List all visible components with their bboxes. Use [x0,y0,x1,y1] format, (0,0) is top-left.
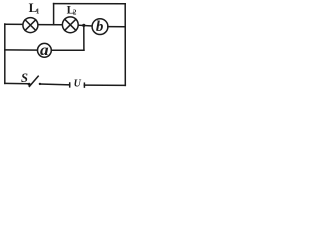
svg-text:1: 1 [36,8,40,16]
wire b to right vertical [108,26,125,28]
wire riser node X [53,4,55,25]
wire L1 to L2 through node X [38,24,62,26]
wire bottom left to switch [5,82,28,84]
wire L2 to meter b [79,24,92,27]
wire source to bottom right [84,84,125,86]
wire a-branch left [5,49,38,51]
source terminal right [83,83,85,87]
source terminal left [69,83,71,87]
wire right vertical [124,4,126,86]
switch S blade [29,76,38,86]
switch contact dot left [28,83,31,86]
wire top-left horizontal to L1 [5,23,23,25]
switch contact dot right [39,83,41,85]
lamp L2 [62,17,78,33]
lamp L1 [23,18,38,33]
svg-text:a: a [40,42,49,59]
node Y junction dot [82,24,85,27]
svg-text:U: U [74,79,82,90]
svg-text:2: 2 [73,9,77,17]
wire top bypass [54,3,126,5]
wire left vertical [4,24,6,83]
meter a [38,43,52,57]
svg-text:S: S [21,71,28,85]
meter b [92,19,108,35]
svg-text:b: b [96,19,104,35]
wire switch to source [40,83,70,86]
wire a-branch right [52,49,84,51]
wire node Y vertical [83,25,85,50]
